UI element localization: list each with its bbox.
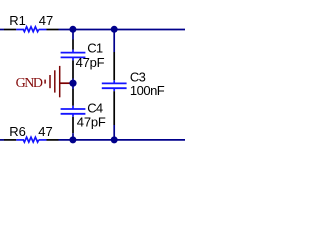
wire C3 branch upper xyxy=(113,30,115,53)
resistor R6 xyxy=(4,137,59,142)
wire C3 to bottom rail xyxy=(113,125,115,140)
wire top rail left stub xyxy=(0,29,4,31)
svg-text:C1: C1 xyxy=(87,41,103,56)
svg-text:47: 47 xyxy=(38,124,52,139)
capacitor C4 xyxy=(61,89,86,133)
svg-text:GND: GND xyxy=(16,76,43,91)
wire GND node to C4 xyxy=(72,83,74,89)
junction top rail / C3 branch xyxy=(111,26,118,33)
svg-text:47: 47 xyxy=(39,13,53,28)
svg-text:100nF: 100nF xyxy=(130,83,165,98)
power port GND xyxy=(16,66,70,97)
svg-text:R1: R1 xyxy=(9,13,26,28)
wire top rail xyxy=(59,29,186,31)
svg-text:C4: C4 xyxy=(87,101,103,116)
resistor R1 xyxy=(4,27,59,32)
wire C1 to GND node xyxy=(72,79,74,84)
svg-text:47pF: 47pF xyxy=(76,55,105,70)
wire C1 branch upper xyxy=(72,30,74,40)
wire bottom rail left stub xyxy=(0,139,4,141)
wire C4 to bottom rail xyxy=(72,133,74,140)
junction bottom rail / C4 branch xyxy=(69,136,76,143)
junction bottom rail / C3 branch xyxy=(111,136,118,143)
capacitor C3 xyxy=(102,52,127,125)
svg-text:R6: R6 xyxy=(9,124,26,139)
svg-text:47pF: 47pF xyxy=(77,114,106,129)
wire bottom rail xyxy=(59,139,186,141)
capacitor C1 xyxy=(61,40,86,79)
junction top rail / C1 branch xyxy=(69,26,76,33)
junction GND node xyxy=(69,80,76,87)
